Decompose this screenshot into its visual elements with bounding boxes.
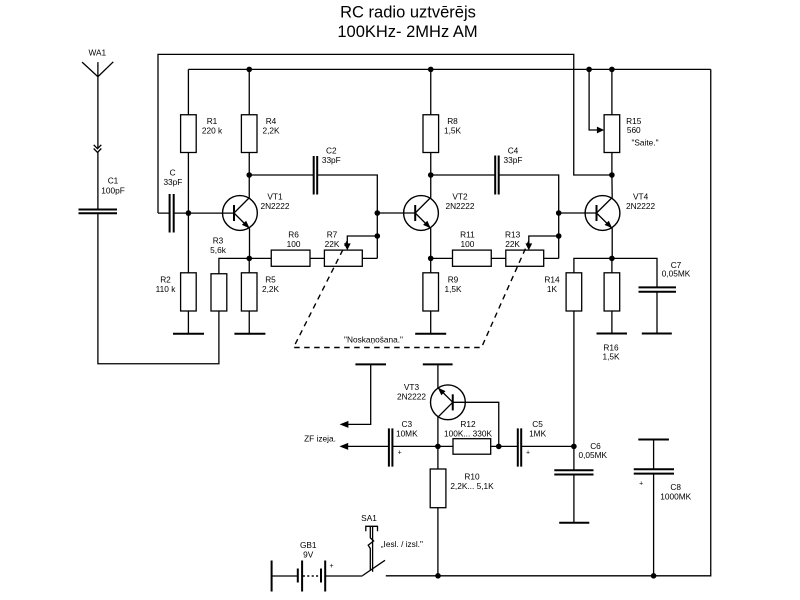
svg-text:+: + bbox=[329, 563, 333, 570]
svg-text:R5: R5 bbox=[265, 275, 276, 285]
svg-text:"Noskaņošana.": "Noskaņošana." bbox=[344, 334, 403, 344]
svg-text:0,05MK: 0,05MK bbox=[662, 269, 691, 279]
svg-text:1000MK: 1000MK bbox=[660, 492, 691, 502]
svg-text:100: 100 bbox=[287, 239, 301, 249]
svg-text:100: 100 bbox=[460, 239, 474, 249]
svg-text:R1: R1 bbox=[207, 116, 218, 126]
svg-text:R7: R7 bbox=[327, 229, 338, 239]
svg-text:C8: C8 bbox=[670, 482, 681, 492]
svg-text:R4: R4 bbox=[266, 116, 277, 126]
svg-text:+: + bbox=[639, 480, 643, 487]
svg-text:R3: R3 bbox=[213, 236, 224, 246]
svg-text:R6: R6 bbox=[288, 229, 299, 239]
svg-text:GB1: GB1 bbox=[300, 540, 317, 550]
svg-text:2N2222: 2N2222 bbox=[626, 201, 655, 211]
svg-text:22K: 22K bbox=[505, 239, 520, 249]
svg-text:1K: 1K bbox=[547, 284, 558, 294]
svg-text:33pF: 33pF bbox=[504, 155, 523, 165]
svg-text:2N2222: 2N2222 bbox=[260, 201, 289, 211]
svg-text:R11: R11 bbox=[460, 229, 475, 239]
svg-text:2N2222: 2N2222 bbox=[397, 391, 426, 401]
svg-text:C1: C1 bbox=[108, 176, 119, 186]
svg-text:560: 560 bbox=[627, 125, 641, 135]
svg-text:1MK: 1MK bbox=[529, 428, 547, 438]
svg-text:C: C bbox=[170, 167, 176, 177]
svg-text:10MK: 10MK bbox=[396, 428, 418, 438]
svg-text:C2: C2 bbox=[326, 145, 337, 155]
svg-text:„Iesl. / izsl.": „Iesl. / izsl." bbox=[381, 539, 423, 549]
svg-text:9V: 9V bbox=[303, 550, 314, 560]
svg-text:2,2K... 5,1K: 2,2K... 5,1K bbox=[450, 481, 494, 491]
svg-text:220 k: 220 k bbox=[202, 126, 223, 136]
svg-text:1,5K: 1,5K bbox=[444, 284, 462, 294]
svg-text:+: + bbox=[398, 450, 402, 457]
svg-text:2N2222: 2N2222 bbox=[445, 201, 474, 211]
svg-text:ZF izeja.: ZF izeja. bbox=[304, 433, 336, 443]
svg-text:SA1: SA1 bbox=[361, 513, 377, 523]
svg-text:"Saite.": "Saite." bbox=[631, 138, 658, 148]
svg-text:RC radio uztvērējs: RC radio uztvērējs bbox=[340, 4, 476, 22]
svg-text:R2: R2 bbox=[160, 275, 171, 285]
svg-text:33pF: 33pF bbox=[163, 177, 182, 187]
svg-text:22K: 22K bbox=[325, 239, 340, 249]
svg-text:110 k: 110 k bbox=[156, 284, 177, 294]
svg-text:0,05MK: 0,05MK bbox=[579, 450, 608, 460]
svg-text:100KHz- 2MHz AM: 100KHz- 2MHz AM bbox=[337, 23, 477, 41]
svg-text:WA1: WA1 bbox=[88, 47, 106, 57]
svg-text:100pF: 100pF bbox=[101, 185, 125, 195]
svg-text:R14: R14 bbox=[544, 275, 560, 285]
svg-text:1,5K: 1,5K bbox=[444, 126, 462, 136]
svg-text:+: + bbox=[526, 450, 530, 457]
svg-text:C4: C4 bbox=[508, 145, 519, 155]
svg-text:33pF: 33pF bbox=[322, 155, 341, 165]
svg-text:R9: R9 bbox=[448, 275, 459, 285]
svg-text:2,2K: 2,2K bbox=[262, 126, 280, 136]
svg-text:R8: R8 bbox=[447, 116, 458, 126]
svg-text:100K... 330K: 100K... 330K bbox=[444, 428, 492, 438]
svg-text:R13: R13 bbox=[505, 229, 521, 239]
svg-text:2,2K: 2,2K bbox=[262, 284, 280, 294]
svg-text:1,5K: 1,5K bbox=[602, 352, 620, 362]
svg-text:5,6k: 5,6k bbox=[210, 245, 227, 255]
